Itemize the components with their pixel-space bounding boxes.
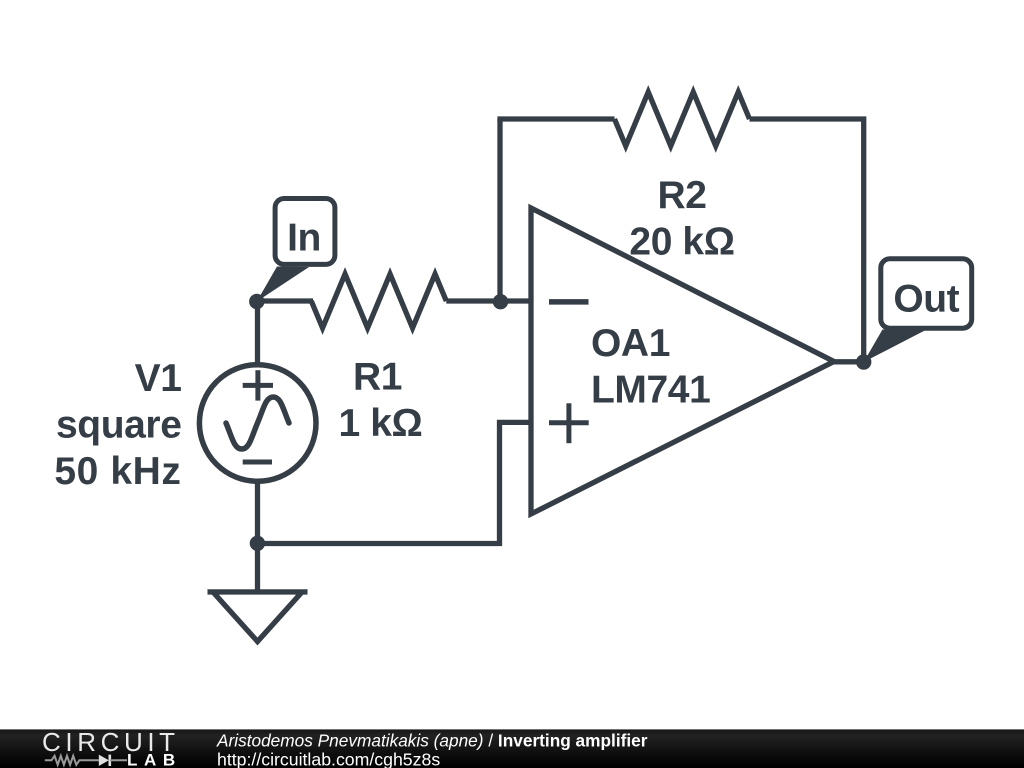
svg-text:square: square: [56, 403, 182, 446]
node In flag pointer: [257, 267, 309, 302]
wire: top feedback horizontal left segment: [497, 116, 614, 121]
svg-text:Aristodemos Pnevmatikakis (apn: Aristodemos Pnevmatikakis (apne) / Inver…: [216, 731, 648, 751]
ground symbol: [208, 592, 308, 642]
label R1 value 1 kOhm: [339, 402, 423, 445]
wire: op-amp output to Out node: [832, 359, 864, 364]
op-amp inverting input minus symbol: [549, 299, 589, 305]
label V1 frequency 50 kHz: [54, 450, 181, 493]
svg-text:http://circuitlab.com/cgh5z8s: http://circuitlab.com/cgh5z8s: [217, 750, 440, 768]
svg-text:R1: R1: [353, 355, 402, 398]
svg-text:1 kΩ: 1 kΩ: [339, 402, 423, 445]
svg-text:Out: Out: [893, 278, 959, 321]
V1 sine glyph: [226, 397, 289, 449]
node Out flag box: [881, 259, 972, 328]
svg-text:V1: V1: [135, 357, 182, 400]
V1 plus mark: [243, 370, 273, 400]
wire: In node to R1 left lead: [258, 298, 314, 303]
svg-text:20 kΩ: 20 kΩ: [629, 221, 734, 264]
footer attribution line author / title: [216, 731, 648, 751]
footer url line: [217, 750, 440, 768]
wire: V1 bottom lead to ground: [255, 479, 260, 592]
label OA1 name: [591, 322, 670, 365]
node Out flag pointer: [864, 330, 925, 363]
node In label text: [287, 217, 321, 260]
footer CircuitLab logo CIRCUIT text: [42, 727, 180, 757]
svg-text:LM741: LM741: [591, 369, 710, 412]
resistor R2: [615, 92, 750, 146]
footer logo LAB text: [127, 751, 182, 768]
V1 minus mark: [243, 460, 272, 465]
label R2 name: [657, 174, 706, 217]
op-amp OA1 triangle: [531, 208, 834, 514]
label R2 value 20 kOhm: [629, 221, 734, 264]
junction dot output node: [856, 354, 871, 369]
node In flag box: [275, 199, 335, 265]
label V1 name: [135, 357, 182, 400]
footer logo resistor-diode squiggle: [45, 755, 127, 766]
footer bar background: [0, 729, 1024, 768]
junction dot ground net: [250, 536, 265, 551]
svg-text:OA1: OA1: [591, 322, 670, 365]
label V1 type square: [56, 403, 182, 446]
junction dot inverting input node: [493, 294, 508, 309]
node Out label text: [893, 278, 959, 321]
svg-text:LAB: LAB: [127, 751, 182, 768]
label R1 name: [353, 355, 402, 398]
wire: feedback left vertical (node to top): [497, 119, 502, 304]
svg-text:In: In: [287, 217, 321, 260]
op-amp non-inverting input plus symbol: [549, 403, 589, 443]
svg-text:50 kHz: 50 kHz: [54, 450, 181, 493]
wire: R1 right lead to op-amp inverting input: [446, 298, 531, 303]
label OA1 part LM741: [591, 369, 710, 412]
svg-text:R2: R2: [657, 174, 706, 217]
resistor R1: [311, 274, 446, 328]
wire: top feedback horizontal right segment and right vertical down to output: [750, 119, 864, 362]
wire: non-inverting input down and left to ground net: [258, 422, 532, 543]
junction dot In node: [249, 294, 264, 309]
voltage source V1 circle: [199, 365, 316, 482]
wire: V1 top lead: [255, 299, 260, 368]
